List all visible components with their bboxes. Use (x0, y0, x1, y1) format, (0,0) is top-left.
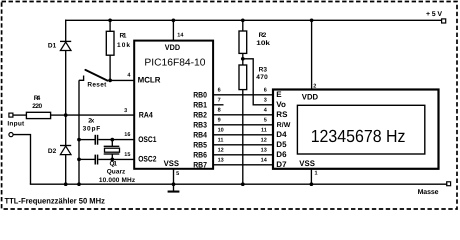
terminal input ground (9, 133, 13, 137)
wire OSC2 left (79, 158, 95, 160)
wire contrast to Vo (243, 59, 273, 105)
wire PIC VSS stub (173, 169, 175, 191)
svg-text:3: 3 (264, 98, 267, 104)
wire OSC2 right (98, 158, 134, 160)
svg-text:VDD: VDD (302, 92, 319, 101)
svg-text:12: 12 (261, 138, 267, 144)
wire input node to D2 (65, 115, 67, 145)
resistor R2 (239, 31, 270, 53)
svg-text:R3: R3 (259, 67, 268, 74)
svg-text:PIC16F84-10: PIC16F84-10 (144, 58, 206, 69)
node PIC VSS ground rail (172, 182, 176, 186)
svg-text:10: 10 (218, 128, 224, 134)
svg-text:RB5: RB5 (193, 140, 207, 149)
terminal Input (7, 113, 25, 127)
svg-text:Masse: Masse (418, 189, 439, 196)
ground (168, 191, 180, 193)
LCD module box (273, 90, 439, 169)
capacitor C2 30pF (95, 155, 99, 165)
svg-text:5: 5 (264, 118, 267, 124)
wire rail to R2 (242, 20, 244, 31)
node reset ground (77, 182, 81, 186)
node crystal top (110, 138, 114, 142)
svg-text:RA4: RA4 (139, 110, 154, 119)
svg-text:15: 15 (124, 152, 130, 158)
svg-text:5: 5 (176, 171, 179, 177)
node R2 rail (241, 18, 245, 22)
svg-text:12: 12 (218, 148, 224, 154)
svg-text:R1: R1 (120, 33, 127, 40)
node crystal bottom (110, 158, 114, 162)
svg-text:VSS: VSS (164, 159, 180, 168)
svg-text:3: 3 (124, 108, 127, 114)
svg-text:470: 470 (256, 74, 268, 81)
svg-text:6: 6 (218, 88, 221, 94)
wire input to R4 (13, 114, 27, 116)
LCD display window (297, 105, 424, 154)
terminal +5V (426, 11, 446, 23)
wire RB4 to D4 (213, 134, 273, 136)
svg-text:RB2: RB2 (193, 110, 207, 119)
resistor R1 (106, 31, 130, 55)
svg-text:VSS: VSS (299, 159, 315, 168)
svg-text:6: 6 (264, 88, 267, 94)
svg-text:Q1: Q1 (110, 161, 118, 168)
svg-text:OSC1: OSC1 (138, 135, 157, 144)
wire rail to R1 (109, 20, 111, 31)
wire ground rail (31, 183, 447, 185)
wire LCD VSS stub (310, 169, 312, 184)
node cap C2 tee (77, 158, 81, 162)
svg-text:E: E (276, 90, 282, 99)
terminal Masse (418, 182, 451, 196)
wire RB2 to RS (213, 114, 273, 116)
wire R4 to node (51, 114, 66, 116)
op-amp U1 PIC16F84 box (134, 41, 213, 169)
diode D1 (48, 41, 71, 50)
node R3 ground (241, 182, 245, 186)
svg-text:D5: D5 (276, 140, 287, 149)
svg-text:11: 11 (218, 138, 224, 144)
wire LCD VDD stub (311, 20, 313, 89)
svg-text:12345678 Hz: 12345678 Hz (311, 126, 406, 146)
resistor R3 (239, 65, 268, 90)
wire MCLR (110, 79, 134, 81)
wire D1 to input node (65, 51, 67, 116)
svg-text:Input: Input (7, 120, 25, 127)
wire RB6 to D6 (213, 154, 273, 156)
node LCD VDD rail (310, 18, 314, 22)
svg-text:D7: D7 (276, 160, 287, 169)
svg-text:RB4: RB4 (193, 130, 207, 139)
svg-text:30pF: 30pF (83, 126, 101, 133)
node PIC VDD rail (172, 18, 176, 22)
capacitor C1 30pF (83, 118, 101, 145)
wire RB7 to D7 (213, 164, 273, 166)
diode D2 (48, 146, 71, 156)
wire RB1 stub (213, 104, 223, 106)
svg-text:D1: D1 (48, 42, 57, 49)
node R1 top (108, 18, 112, 22)
svg-text:9: 9 (218, 118, 221, 124)
svg-text:+5V: +5V (426, 11, 442, 18)
svg-text:8: 8 (218, 108, 221, 114)
svg-text:14: 14 (177, 33, 184, 39)
svg-text:13: 13 (261, 148, 267, 154)
svg-text:R4: R4 (34, 95, 41, 102)
svg-text:R2: R2 (259, 32, 267, 39)
wire +5V top rail (66, 19, 442, 21)
svg-text:D2: D2 (48, 148, 57, 155)
svg-text:Reset: Reset (87, 82, 107, 89)
switch Reset contact (79, 76, 84, 81)
svg-text:11: 11 (261, 128, 267, 134)
svg-text:14: 14 (261, 158, 268, 164)
svg-text:R/W: R/W (277, 121, 291, 129)
wire RB3 to R/W (213, 124, 273, 126)
svg-text:Quarz: Quarz (107, 168, 126, 175)
node cap C1 tee (77, 138, 81, 142)
svg-text:MCLR: MCLR (138, 76, 161, 85)
wire reset to ground (78, 80, 80, 184)
svg-text:RB3: RB3 (193, 120, 207, 129)
svg-text:Vo: Vo (276, 100, 286, 109)
svg-text:2: 2 (313, 84, 316, 90)
svg-text:10k: 10k (117, 42, 130, 49)
wire OSC1 left (79, 139, 95, 141)
wire OSC1 right (98, 139, 134, 141)
wire D2 to ground rail (65, 155, 67, 185)
node R2 R3 junction (241, 57, 245, 61)
svg-text:OSC2: OSC2 (138, 155, 157, 164)
svg-text:D4: D4 (276, 130, 287, 139)
svg-text:1: 1 (315, 171, 318, 177)
svg-text:13: 13 (218, 158, 224, 164)
wire R3 to ground rail (242, 90, 244, 185)
wire R1 to MCLR node (109, 55, 111, 80)
node MCLR junction (108, 79, 112, 83)
svg-text:220: 220 (32, 103, 42, 110)
wire input ground to rail (13, 135, 30, 185)
svg-text:RS: RS (276, 110, 288, 119)
svg-text:TTL-Frequenzzähler 50 MHz: TTL-Frequenzzähler 50 MHz (5, 196, 105, 205)
svg-text:D6: D6 (276, 150, 287, 159)
wire RB5 to D5 (213, 144, 273, 146)
node LCD VSS ground rail (310, 182, 314, 186)
svg-text:10k: 10k (256, 40, 270, 47)
wire R2 to R3 (242, 53, 244, 65)
svg-text:RB1: RB1 (193, 100, 207, 109)
node input junction (64, 113, 68, 117)
wire diode column top (65, 20, 67, 42)
svg-text:VDD: VDD (165, 43, 181, 52)
wire RB0 to E (213, 94, 273, 96)
svg-text:16: 16 (124, 132, 130, 138)
svg-text:7: 7 (218, 98, 221, 104)
switch Reset lever (85, 70, 107, 89)
svg-text:2x: 2x (88, 118, 94, 125)
wire PIC VDD stub (172, 20, 174, 40)
resistor R4 (26, 95, 50, 119)
crystal Q1 (99, 140, 136, 184)
svg-text:10.000 MHz: 10.000 MHz (99, 177, 136, 184)
svg-text:RB6: RB6 (193, 150, 207, 159)
wire RA4 input line (66, 114, 135, 116)
svg-text:RB7: RB7 (193, 160, 207, 169)
node D2 ground (64, 182, 68, 186)
svg-text:RB0: RB0 (193, 90, 207, 99)
